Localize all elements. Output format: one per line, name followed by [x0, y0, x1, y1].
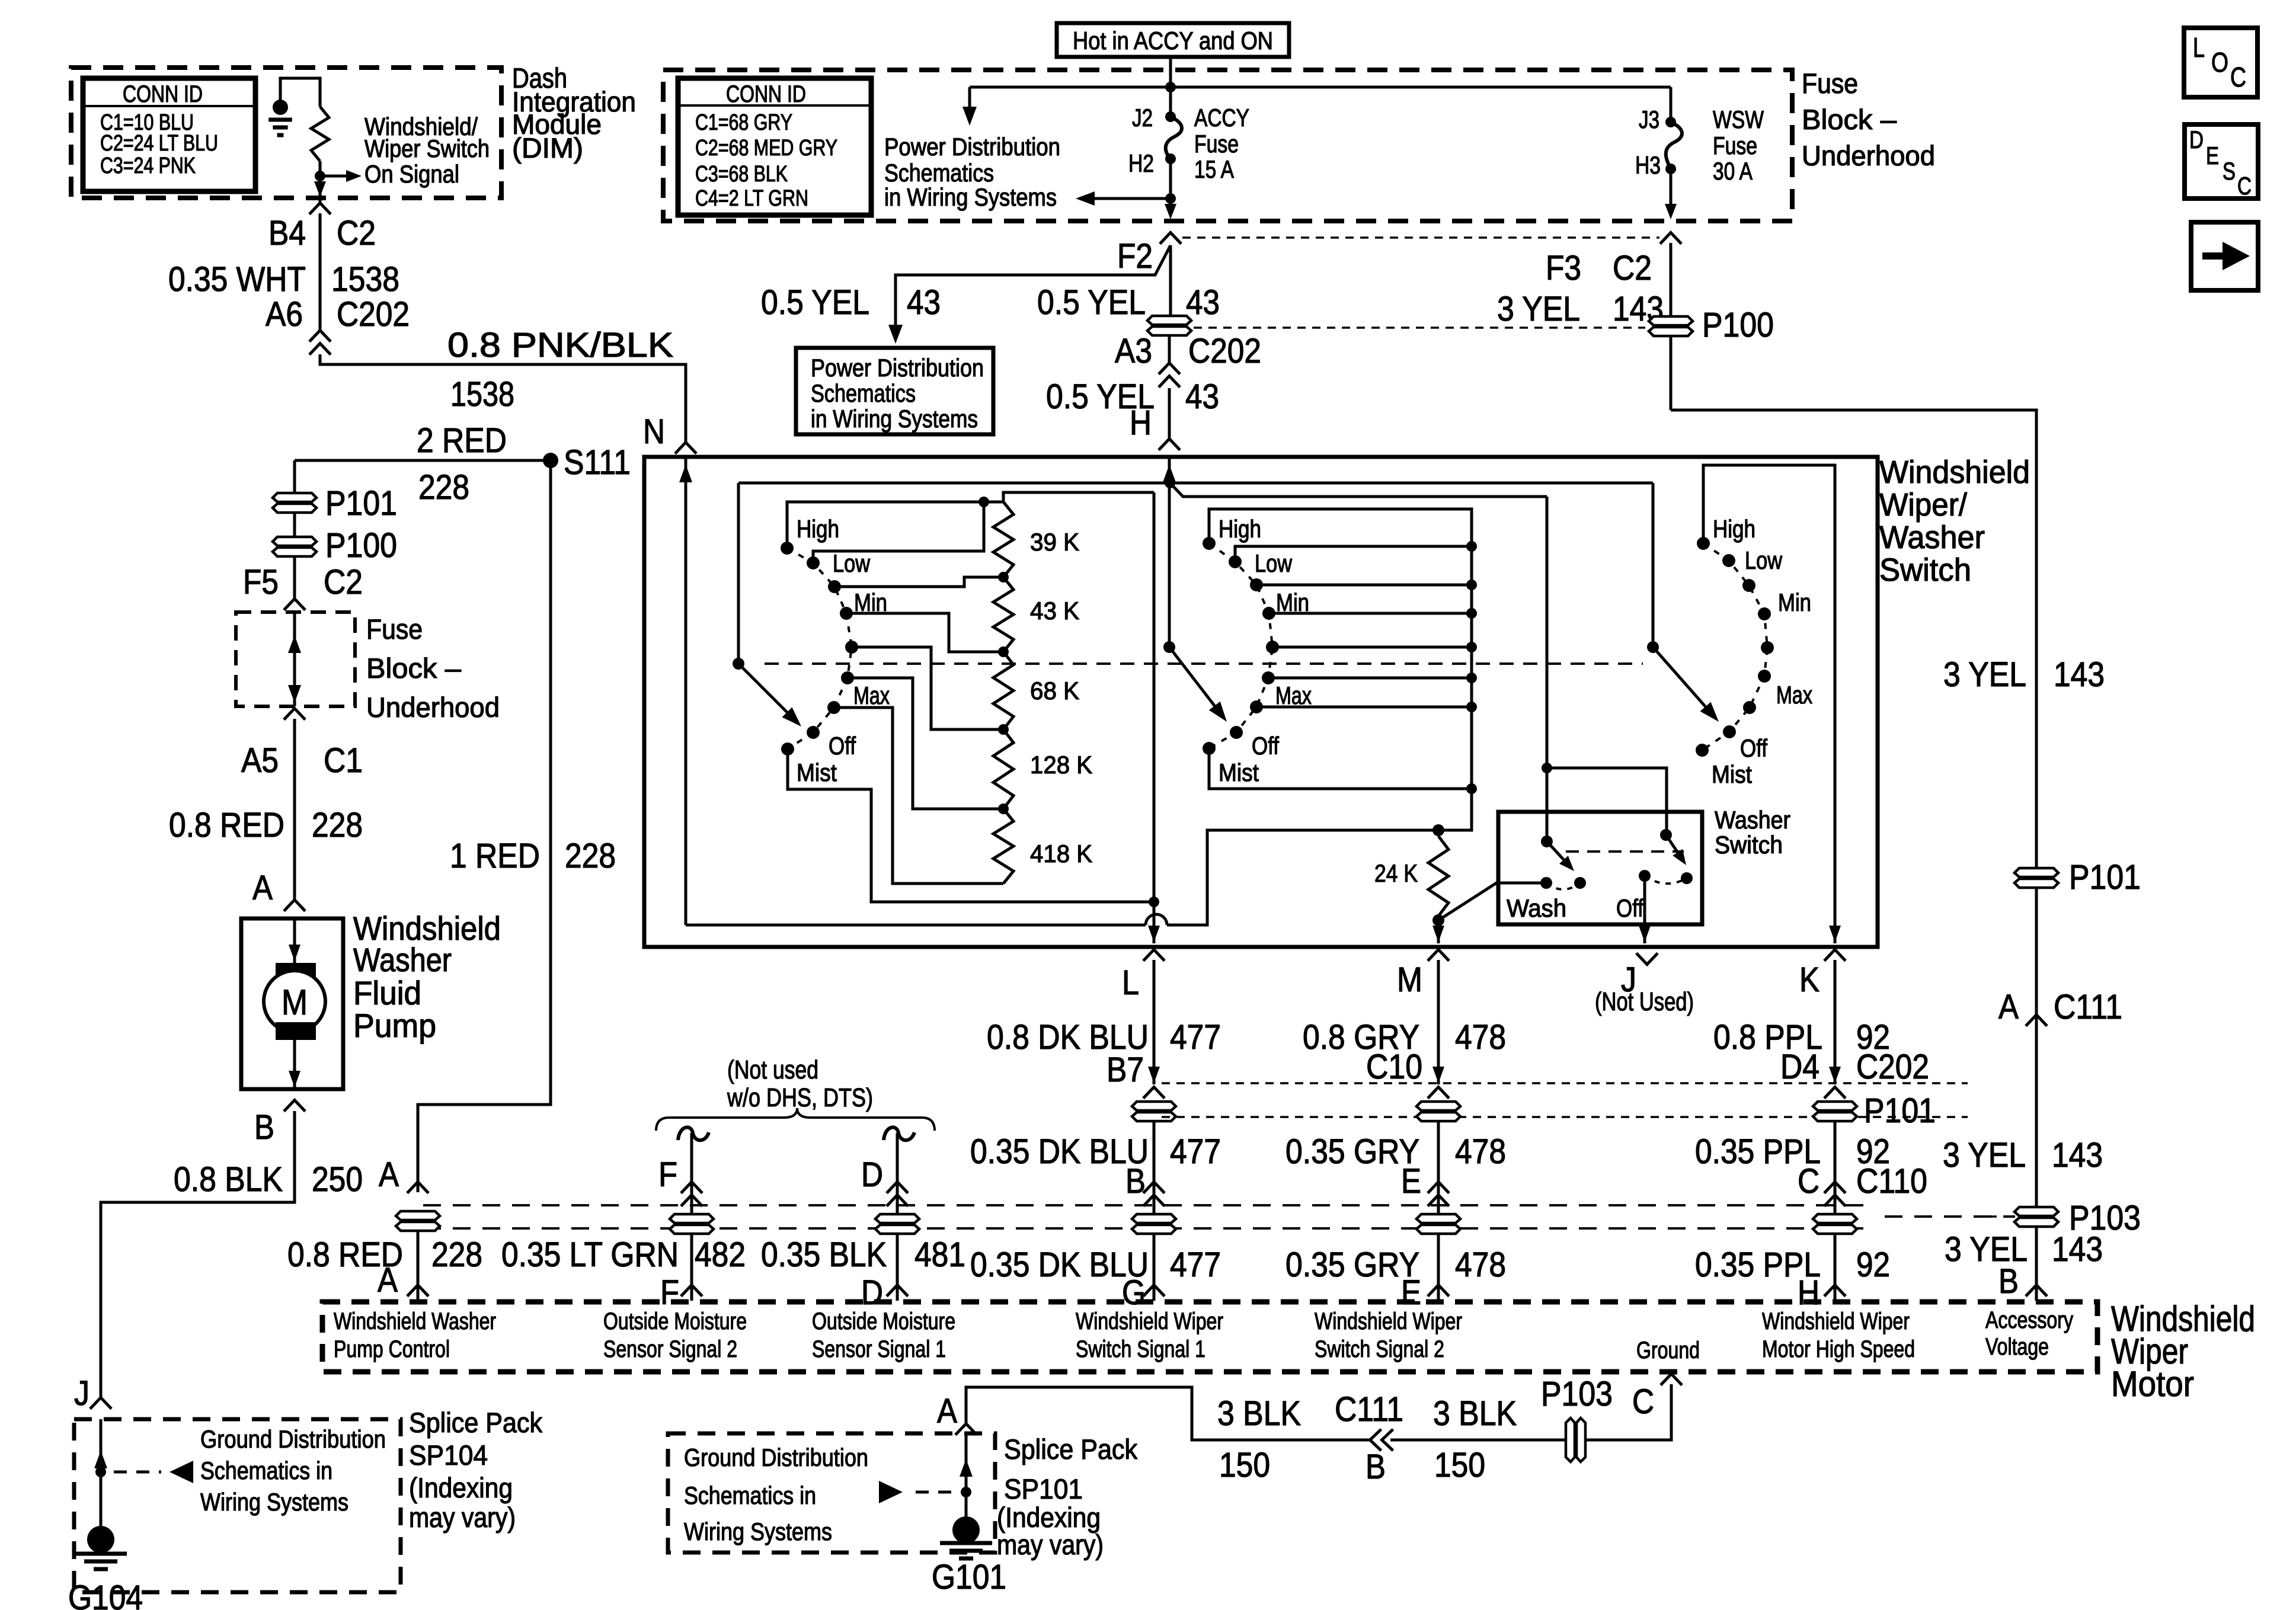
- pin A5 connector: [284, 709, 305, 720]
- wire into SP101: [965, 1433, 968, 1530]
- wire N return with hop over L: [686, 924, 1146, 927]
- svg-text:Motor: Motor: [2111, 1364, 2194, 1404]
- svg-text:C: C: [1632, 1382, 1654, 1421]
- svg-text:P101: P101: [1864, 1092, 1936, 1130]
- svg-text:43: 43: [1186, 283, 1220, 322]
- svg-text:H: H: [1798, 1273, 1819, 1312]
- connector row P101 lower (dashed): [1162, 1116, 1968, 1118]
- svg-text:Off: Off: [829, 732, 856, 760]
- svg-text:477: 477: [1170, 1018, 1221, 1057]
- contact arc bank1 (dashed): [787, 548, 852, 749]
- svg-text:C: C: [1798, 1162, 1819, 1201]
- component box Windshield Wiper/Washer Switch: [644, 457, 1878, 947]
- svg-text:Mist: Mist: [1712, 760, 1752, 788]
- svg-text:15 A: 15 A: [1194, 155, 1234, 183]
- svg-text:C: C: [2230, 62, 2246, 92]
- stub terminal F: [678, 1127, 709, 1140]
- wire bank1 Low tap: [813, 502, 984, 563]
- svg-text:Schematics: Schematics: [811, 379, 916, 407]
- connector row C2 (dashed): [1182, 236, 1659, 239]
- svg-text:Min: Min: [1778, 588, 1811, 616]
- wire 0.8 DK BLU 477: [1153, 960, 1156, 1084]
- table CONN ID (fuse block): [678, 78, 871, 215]
- svg-text:G: G: [1122, 1273, 1146, 1312]
- wire to P101: [293, 460, 296, 600]
- wire bank1 High to resistor top: [787, 492, 1154, 548]
- module box Fuse Block - Underhood (F5): [236, 612, 355, 706]
- svg-text:Ground: Ground: [1636, 1337, 1700, 1363]
- module box Splice Pack SP101: [668, 1433, 995, 1553]
- contact pivot washer right: [1660, 829, 1672, 841]
- wire washer feed: [1546, 497, 1549, 841]
- svg-text:Switch Signal 1: Switch Signal 1: [1076, 1336, 1205, 1362]
- wire bank2 Max rung: [1256, 706, 1472, 709]
- svg-text:S111: S111: [564, 443, 631, 482]
- svg-text:Mist: Mist: [1219, 758, 1259, 786]
- svg-text:WSW: WSW: [1713, 105, 1764, 133]
- svg-text:Windshield: Windshield: [1879, 454, 2030, 490]
- svg-text:0.35 LT GRN: 0.35 LT GRN: [501, 1235, 679, 1274]
- module box Fuse Block - Underhood: [663, 70, 1792, 221]
- connector row P103 right stub (dashed): [1885, 1215, 2015, 1218]
- svg-text:Fuse: Fuse: [1194, 130, 1239, 158]
- svg-text:418 K: 418 K: [1030, 840, 1092, 868]
- svg-text:3 YEL: 3 YEL: [1943, 655, 2026, 694]
- svg-text:(Not Used): (Not Used): [1595, 987, 1694, 1016]
- wire bank3 High to K output: [1703, 465, 1835, 943]
- contact arc bank3 (dashed): [1702, 543, 1767, 750]
- wiper arm bank3: [1653, 647, 1706, 706]
- pin H connector: [1824, 1285, 1846, 1297]
- arrow to power distribution (down): [968, 87, 971, 113]
- connector P103 (D): [875, 1214, 919, 1234]
- svg-text:ACCY: ACCY: [1194, 104, 1249, 132]
- contact washer right travel: [1681, 872, 1693, 884]
- module box Windshield Wiper Motor: [322, 1302, 2097, 1372]
- svg-text:Sensor Signal 2: Sensor Signal 2: [603, 1336, 737, 1362]
- svg-text:143: 143: [2052, 1136, 2103, 1174]
- svg-text:Low: Low: [1255, 549, 1293, 577]
- svg-text:High: High: [1219, 515, 1261, 543]
- table CONN ID (DIM): [83, 78, 255, 191]
- svg-text:A: A: [1998, 988, 2019, 1026]
- svg-text:High: High: [797, 515, 839, 543]
- wire 3 BLK 150 to SP101: [966, 1387, 1370, 1440]
- svg-text:M: M: [282, 982, 308, 1022]
- svg-text:Underhood: Underhood: [366, 692, 500, 723]
- connector C111 A (chevron): [2026, 1015, 2047, 1026]
- svg-text:(Indexing: (Indexing: [409, 1472, 513, 1503]
- svg-text:C1: C1: [324, 741, 363, 780]
- svg-text:High: High: [1713, 515, 1755, 543]
- connector P101 (L): [1132, 1102, 1176, 1121]
- svg-text:A: A: [378, 1261, 398, 1299]
- svg-text:in Wiring Systems: in Wiring Systems: [884, 183, 1057, 211]
- svg-text:Off: Off: [1252, 732, 1279, 760]
- svg-text:P100: P100: [1702, 306, 1774, 344]
- svg-text:E: E: [2206, 142, 2219, 169]
- connector C (double chevron): [1824, 1182, 1846, 1193]
- wire bank2 Low rung: [1235, 546, 1472, 562]
- node wiper-switch-on-signal: [315, 171, 325, 181]
- svg-text:C: C: [2237, 172, 2252, 200]
- svg-text:E: E: [1401, 1273, 1421, 1312]
- svg-text:Fluid: Fluid: [353, 974, 421, 1012]
- wire bank1 Mist to L output: [788, 749, 1154, 902]
- svg-text:Power Distribution: Power Distribution: [811, 354, 984, 382]
- contact pivot washer left: [1541, 836, 1553, 847]
- wire to C111: [1390, 1439, 1565, 1442]
- connector B (double chevron): [1143, 1182, 1165, 1193]
- connector P100 (pump feed): [273, 537, 316, 556]
- wire fuse output F3: [1670, 169, 1673, 209]
- svg-text:30 A: 30 A: [1713, 157, 1753, 185]
- module box Splice Pack SP104: [74, 1419, 401, 1592]
- resistor 68 K: [993, 652, 1013, 729]
- svg-text:CONN ID: CONN ID: [726, 81, 806, 107]
- node resistor top: [978, 497, 989, 507]
- ground G104: [87, 1526, 114, 1553]
- legend box LOC: [2184, 28, 2257, 97]
- svg-text:Max: Max: [1776, 681, 1812, 709]
- wire 0.8 RED 228 to pump: [293, 719, 296, 899]
- wire 0.8 RED 228 (pump control): [417, 1230, 420, 1301]
- svg-text:F2: F2: [1117, 237, 1153, 276]
- pin H connector: [1159, 439, 1180, 450]
- wire from Hot-in-ACCY feed: [1169, 57, 1172, 117]
- svg-text:in Wiring Systems: in Wiring Systems: [811, 405, 978, 433]
- svg-text:Motor High Speed: Motor High Speed: [1762, 1336, 1915, 1362]
- pin N connector: [675, 443, 696, 454]
- svg-text:C110: C110: [1856, 1162, 1927, 1201]
- resistor (DIM pull-up): [311, 107, 329, 161]
- wire bank2 Min rung: [1269, 612, 1472, 615]
- svg-text:43 K: 43 K: [1030, 597, 1079, 625]
- pin G connector: [1143, 1285, 1165, 1297]
- svg-text:Ground Distribution: Ground Distribution: [684, 1443, 868, 1471]
- svg-text:SP104: SP104: [409, 1439, 488, 1471]
- wire 2 RED 228: [295, 459, 551, 462]
- wire 0.8 BLK 250: [101, 1111, 295, 1397]
- legend box arrow: [2191, 222, 2258, 290]
- svg-text:478: 478: [1455, 1132, 1506, 1171]
- svg-text:Accessory: Accessory: [1985, 1307, 2073, 1333]
- wire 0.35 DK BLU 477: [1153, 1121, 1156, 1301]
- svg-text:3 BLK: 3 BLK: [1433, 1394, 1517, 1433]
- svg-text:C111: C111: [1335, 1390, 1403, 1429]
- svg-text:Sensor Signal 1: Sensor Signal 1: [812, 1336, 946, 1362]
- resistor 39 K: [993, 502, 1013, 577]
- svg-text:Hot in ACCY and ON: Hot in ACCY and ON: [1073, 27, 1273, 55]
- splice node SP104: [95, 1467, 106, 1477]
- wire H bus to bank1 and bank3: [738, 482, 1653, 485]
- contact pivot bank3: [1647, 641, 1659, 653]
- connector P103 (pump control): [396, 1211, 440, 1231]
- fuse WSW 30A (J3-H3): [1670, 87, 1673, 122]
- node 24K bottom: [1432, 914, 1444, 926]
- svg-text:150: 150: [1434, 1446, 1485, 1484]
- svg-text:0.8 RED: 0.8 RED: [169, 806, 284, 844]
- wiper arm washer left: [1547, 841, 1563, 860]
- wire J output: [1643, 876, 1646, 943]
- svg-text:Wiring Systems: Wiring Systems: [684, 1518, 832, 1545]
- connector P103 (right rail): [2014, 1207, 2058, 1227]
- svg-text:H3: H3: [1635, 151, 1661, 179]
- svg-text:A: A: [379, 1156, 399, 1194]
- wire 1 RED 228: [418, 460, 551, 1192]
- pin K connector: [1824, 950, 1846, 961]
- wire 0.8 GRY 478: [1437, 960, 1440, 1084]
- svg-text:B7: B7: [1107, 1051, 1144, 1089]
- wire pump internal top: [293, 918, 296, 963]
- arrow On Signal: [320, 175, 346, 178]
- wire 0.5 YEL 43 (F2 to C202): [1169, 245, 1172, 316]
- wire N entry: [685, 457, 687, 925]
- connector row P101 upper (dashed): [1162, 1082, 1968, 1084]
- svg-text:0.35 GRY: 0.35 GRY: [1285, 1246, 1419, 1284]
- svg-text:B: B: [1125, 1162, 1146, 1201]
- svg-text:Max: Max: [1275, 681, 1312, 709]
- node feed split: [1165, 82, 1176, 92]
- wire branch 0.5 YEL 43 to power distribution: [896, 245, 1171, 329]
- wire bank1 common: [737, 483, 740, 664]
- svg-text:may vary): may vary): [409, 1502, 516, 1533]
- arrow to wiring systems (left): [1085, 197, 1171, 200]
- contact arc bank2 (dashed): [1209, 543, 1272, 748]
- wire 0.35 WHT 1538: [319, 213, 322, 331]
- svg-text:On Signal: On Signal: [364, 160, 459, 188]
- svg-text:G104: G104: [68, 1579, 143, 1610]
- wiper arm bank2: [1169, 647, 1214, 706]
- svg-text:2 RED: 2 RED: [417, 421, 507, 460]
- svg-text:F3: F3: [1546, 249, 1581, 287]
- wire sensor signal 1 stub: [896, 1133, 899, 1301]
- svg-text:L: L: [2193, 32, 2205, 63]
- dashed switch centerline: [765, 662, 1643, 665]
- svg-text:Splice Pack: Splice Pack: [1004, 1433, 1137, 1465]
- wire bank1 tap 39K/43K: [834, 577, 1003, 587]
- svg-text:(Not used: (Not used: [727, 1055, 818, 1084]
- svg-text:C4=2 LT GRN: C4=2 LT GRN: [695, 186, 808, 211]
- svg-text:M: M: [1397, 961, 1422, 999]
- svg-text:C10: C10: [1366, 1048, 1422, 1086]
- svg-text:Switch: Switch: [1715, 831, 1783, 859]
- dashed link to schematics (SP101): [879, 1481, 903, 1503]
- connector E (double chevron): [1428, 1182, 1449, 1193]
- svg-text:Underhood: Underhood: [1802, 140, 1935, 171]
- svg-text:H2: H2: [1128, 149, 1154, 177]
- svg-text:Wiring Systems: Wiring Systems: [200, 1488, 348, 1516]
- connector P103 (F): [670, 1214, 714, 1234]
- svg-text:Windshield Washer: Windshield Washer: [334, 1308, 496, 1334]
- svg-text:Washer: Washer: [1879, 520, 1985, 555]
- component box Windshield Washer Fluid Pump: [241, 918, 343, 1089]
- svg-text:92: 92: [1856, 1246, 1890, 1284]
- connector P100: [1649, 316, 1693, 336]
- svg-text:478: 478: [1455, 1246, 1506, 1284]
- svg-text:481: 481: [914, 1235, 965, 1274]
- svg-text:3 YEL: 3 YEL: [1943, 1136, 2026, 1174]
- svg-text:Pump: Pump: [353, 1007, 436, 1044]
- svg-text:P101: P101: [325, 484, 397, 523]
- svg-text:C111: C111: [2054, 988, 2122, 1026]
- resistor 24 K: [1437, 830, 1440, 836]
- pin F2 connector: [1160, 233, 1181, 244]
- connector P101 (K): [1813, 1102, 1857, 1121]
- resistor 128 K: [993, 729, 1013, 809]
- legend box DESC: [2185, 124, 2258, 199]
- node H2 out: [1165, 193, 1176, 204]
- svg-text:1538: 1538: [331, 260, 399, 299]
- svg-text:0.5 YEL: 0.5 YEL: [761, 283, 869, 322]
- pin A connector (SP101): [955, 1424, 977, 1435]
- svg-text:D: D: [861, 1156, 883, 1194]
- wire to pin B4: [319, 176, 322, 204]
- node H junction: [1165, 478, 1175, 488]
- pin A connector (pump control): [407, 1182, 428, 1193]
- svg-text:68 K: 68 K: [1030, 677, 1079, 705]
- wiper arm bank1: [738, 664, 787, 712]
- svg-text:228: 228: [431, 1235, 482, 1274]
- wiper arm washer right: [1666, 835, 1678, 852]
- svg-text:D4: D4: [1780, 1048, 1819, 1086]
- svg-text:Off: Off: [1740, 734, 1767, 762]
- svg-text:0.5 YEL: 0.5 YEL: [1037, 283, 1146, 322]
- svg-text:478: 478: [1455, 1018, 1506, 1057]
- connector C202 pass-through: [1147, 316, 1191, 335]
- pin E connector: [1428, 1285, 1449, 1297]
- svg-text:O: O: [2211, 47, 2228, 78]
- svg-text:250: 250: [312, 1160, 363, 1199]
- pin B (washer pump): [284, 1100, 305, 1112]
- svg-text:C2: C2: [337, 214, 376, 252]
- connector P103 (K): [1813, 1214, 1857, 1234]
- svg-text:43: 43: [1185, 377, 1219, 416]
- svg-text:C3=24 PNK: C3=24 PNK: [100, 153, 196, 178]
- connector C202 A6 (double chevron): [309, 331, 331, 342]
- svg-text:1538: 1538: [450, 375, 514, 414]
- wire L output (switch internal): [1153, 492, 1156, 943]
- wire 3 YEL 143 (F3): [1670, 243, 1673, 410]
- svg-text:0.35 DK BLU: 0.35 DK BLU: [970, 1132, 1149, 1171]
- svg-text:D: D: [2189, 126, 2204, 153]
- wire bank1 tap 68K/128K: [852, 647, 1003, 729]
- svg-text:Fuse: Fuse: [1713, 132, 1757, 159]
- svg-text:L: L: [1122, 964, 1139, 1002]
- svg-text:Windshield Wiper: Windshield Wiper: [1076, 1308, 1223, 1334]
- svg-text:Max: Max: [853, 681, 890, 709]
- svg-text:Block –: Block –: [366, 652, 462, 684]
- wire bank3 feed: [1652, 483, 1655, 647]
- svg-text:Washer: Washer: [1715, 806, 1790, 834]
- svg-text:Voltage: Voltage: [1985, 1334, 2049, 1360]
- svg-text:may vary): may vary): [997, 1529, 1104, 1560]
- svg-text:228: 228: [418, 468, 469, 507]
- wire bank2 High rung: [1167, 509, 1472, 925]
- svg-text:H: H: [1130, 404, 1152, 442]
- wire bank2 rung 5: [1272, 646, 1472, 649]
- wire 0.8 PPL 92: [1834, 960, 1837, 1084]
- svg-text:F: F: [658, 1156, 677, 1194]
- node washer branch: [1542, 763, 1552, 773]
- wire H entry: [1168, 457, 1171, 647]
- connector row P103 upper (dashed): [423, 1204, 1873, 1206]
- component box Washer Switch: [1498, 812, 1702, 924]
- wire bank2 feed: [1170, 483, 1547, 497]
- wire 24K to Wash contact: [1438, 883, 1546, 920]
- wire bank2 rung 3: [1256, 584, 1472, 587]
- svg-text:39 K: 39 K: [1030, 528, 1079, 556]
- svg-text:B: B: [1366, 1448, 1386, 1486]
- connector row P103 lower (dashed): [423, 1227, 1873, 1230]
- contact washer left travel: [1574, 877, 1586, 889]
- svg-text:Wiper/: Wiper/: [1879, 487, 1967, 523]
- resistor 418 K: [993, 809, 1013, 884]
- svg-text:C2=68 MED GRY: C2=68 MED GRY: [695, 136, 837, 161]
- svg-text:Schematics: Schematics: [884, 159, 994, 187]
- svg-text:A3: A3: [1115, 332, 1152, 370]
- svg-text:128 K: 128 K: [1030, 751, 1092, 779]
- svg-text:SP101: SP101: [1004, 1473, 1083, 1505]
- wire 0.8 PNK/BLK 1538 to node N: [320, 354, 686, 443]
- reference box Power Distribution Schematics in Wiring Systems: [796, 348, 993, 434]
- svg-text:w/o DHS, DTS): w/o DHS, DTS): [727, 1083, 873, 1112]
- wire sensor signal 2 stub: [690, 1133, 693, 1301]
- wire into SP104: [100, 1419, 103, 1530]
- svg-text:0.35 GRY: 0.35 GRY: [1285, 1132, 1419, 1171]
- svg-text:Off: Off: [1616, 894, 1643, 922]
- svg-text:Low: Low: [833, 549, 871, 577]
- dashed link to schematics (SP104): [114, 1471, 161, 1474]
- wire ground to resistor: [280, 78, 320, 107]
- pin M connector: [1428, 950, 1449, 961]
- svg-text:0.35 BLK: 0.35 BLK: [761, 1235, 887, 1274]
- svg-text:0.8 PNK/BLK: 0.8 PNK/BLK: [447, 326, 673, 364]
- contact Wash: [1540, 877, 1552, 889]
- contact pivot bank2: [1163, 641, 1175, 653]
- module box Dash Integration Module (DIM): [71, 68, 501, 198]
- brace moisture sensors: [656, 1108, 935, 1131]
- svg-text:B: B: [254, 1108, 274, 1147]
- svg-text:B4: B4: [268, 214, 306, 252]
- svg-text:150: 150: [1219, 1446, 1270, 1484]
- svg-text:F5: F5: [243, 563, 279, 601]
- wire feed bus to WSW fuse: [970, 86, 1671, 89]
- wire bank1 Max to resistor bottom: [834, 708, 1003, 884]
- svg-text:Washer: Washer: [353, 941, 452, 978]
- svg-text:Schematics in: Schematics in: [684, 1481, 816, 1509]
- svg-text:P103: P103: [1541, 1375, 1613, 1413]
- svg-text:Wiper Switch: Wiper Switch: [364, 135, 490, 162]
- svg-text:J2: J2: [1132, 104, 1153, 132]
- svg-text:Switch: Switch: [1879, 552, 1971, 588]
- svg-text:Fuse: Fuse: [366, 613, 423, 645]
- svg-text:(DIM): (DIM): [512, 132, 583, 164]
- splice S111: [543, 453, 558, 468]
- svg-text:Windshield Wiper: Windshield Wiper: [1762, 1308, 1910, 1334]
- svg-text:Block –: Block –: [1802, 104, 1897, 135]
- connector row C202 (dashed): [1194, 327, 1645, 329]
- svg-text:Mist: Mist: [797, 758, 837, 786]
- wire bank1 Min tap 43K/68K: [846, 613, 1003, 652]
- power tag Hot in ACCY and ON: [1057, 23, 1289, 57]
- svg-text:C202: C202: [337, 295, 410, 334]
- svg-text:482: 482: [695, 1235, 746, 1274]
- wire fuse output F2: [1169, 159, 1172, 209]
- wire through fuse block: [293, 612, 296, 706]
- wire 0.35 GRY 478: [1437, 1121, 1440, 1301]
- connector P101 (right rail): [2014, 868, 2058, 888]
